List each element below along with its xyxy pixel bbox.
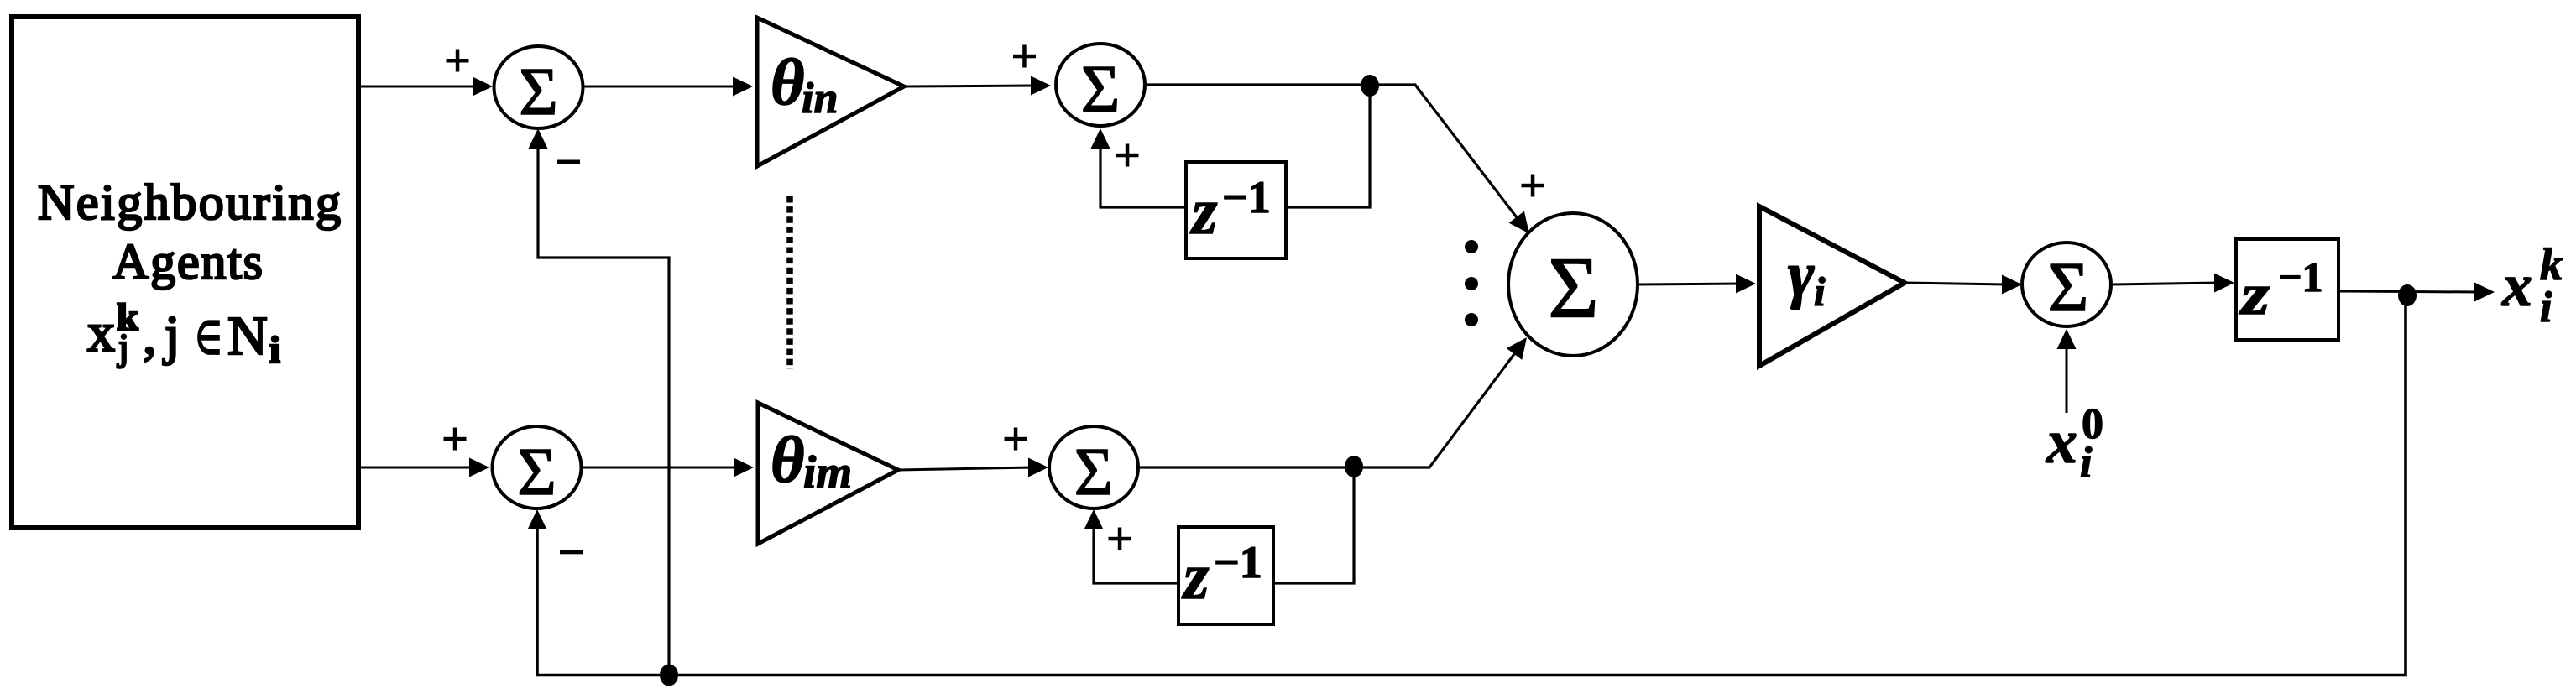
arrowhead into S4 — [1028, 458, 1048, 477]
svg-text:Agents: Agents — [112, 234, 263, 290]
block: Neighbouring Agents source box — [12, 17, 358, 528]
wire: S5 to delay Z3 — [2111, 283, 2218, 284]
arrowhead up into S4 — [1084, 509, 1104, 529]
arrowhead into S2 — [1031, 76, 1051, 96]
label theta_im — [771, 423, 852, 498]
svg-text:i: i — [2080, 439, 2093, 487]
gain block G1 gamma_i (triangle) — [1759, 206, 1905, 366]
label z^-1 of Z3 — [2239, 253, 2323, 327]
svg-text:,: , — [143, 305, 157, 366]
svg-text:in: in — [802, 75, 838, 123]
summer S3 (bottom-left sigma circle) — [493, 426, 582, 509]
svg-text:−1: −1 — [1214, 537, 1262, 587]
arrowhead into G1 — [1736, 274, 1756, 294]
plus sign at S4 input — [1005, 428, 1027, 451]
big summer SB (large sigma ellipse) — [1508, 213, 1638, 356]
svg-text:Σ: Σ — [1081, 53, 1121, 127]
arrowhead up into S2 — [1091, 128, 1110, 149]
svg-text:j: j — [163, 305, 180, 366]
label z^-1 of Z1 — [1189, 172, 1271, 248]
label z^-1 of Z2 — [1181, 537, 1262, 613]
arrowhead into T1 — [733, 77, 753, 97]
gain block T2 theta_im (triangle) — [758, 403, 898, 544]
wire: T1 to summer S2 — [904, 86, 1035, 86]
summer S2 (top accumulator sigma circle) — [1056, 44, 1145, 126]
junction dot on S4 output — [1345, 456, 1363, 477]
delay block Z1 (z^-1 top) — [1186, 162, 1286, 258]
gain block T1 theta_in (triangle) — [757, 18, 904, 166]
label x_i^k — [2501, 239, 2563, 331]
summer S1 (top-left sigma circle) — [494, 46, 583, 128]
wire: T2 to summer S4 — [898, 467, 1032, 470]
wire: G1 to summer S5 — [1905, 283, 2006, 284]
wire: S2 output to corner and diagonal into big summer — [1145, 85, 1522, 224]
ellipsis dots left of big summer — [1465, 240, 1478, 326]
svg-text:Σ: Σ — [519, 55, 558, 129]
label theta_in — [771, 45, 838, 123]
minus sign at S1 feedback input — [557, 160, 580, 164]
svg-text:Σ: Σ — [2048, 248, 2089, 326]
svg-text:k: k — [2540, 239, 2563, 290]
wire: bottom z-loop from junction down into Z2 — [1273, 467, 1354, 583]
wire: Z1 output back into S2 — [1100, 144, 1186, 207]
svg-text:∈: ∈ — [196, 313, 222, 363]
svg-text:i: i — [1814, 269, 1826, 315]
svg-text:Σ: Σ — [1074, 436, 1114, 509]
svg-text:im: im — [803, 446, 852, 498]
arrowhead up into S3 — [528, 509, 547, 529]
svg-text:z: z — [2239, 263, 2270, 327]
svg-text:z: z — [1181, 540, 1210, 613]
svg-text:Σ: Σ — [1548, 240, 1599, 336]
wire: feedback branch up from bottom junction into S1 — [538, 144, 669, 676]
delay block Z3 (z^-1 output) — [2236, 239, 2338, 340]
arrowhead into S1 — [473, 77, 493, 97]
svg-text:z: z — [1189, 175, 1218, 248]
svg-text:x: x — [87, 302, 115, 363]
summer S4 (bottom accumulator sigma circle) — [1049, 426, 1138, 509]
label x_i^0 — [2046, 400, 2103, 487]
arrowhead into S5 — [2002, 275, 2022, 295]
summer S5 (output sigma circle) — [2022, 243, 2111, 326]
label: x_j^k, j in N_i — [87, 295, 280, 371]
svg-text:N: N — [227, 305, 268, 367]
arrowhead up into S1 — [529, 128, 548, 149]
wire: Z2 output back into S4 — [1094, 525, 1178, 583]
wire: box to summer S1 — [361, 86, 477, 88]
plus sign at S3 input — [444, 428, 467, 451]
plus sign at big summer top input — [1522, 175, 1544, 197]
svg-text:−1: −1 — [2278, 253, 2323, 300]
plus sign at S4 feedback input — [1109, 528, 1131, 550]
wire: SB to gain G1 — [1638, 284, 1740, 284]
wire: feedback from output junction down, along bottom, up into S3 — [537, 295, 2406, 676]
wire: S4 output to corner and diagonal into big summer — [1138, 347, 1519, 467]
svg-text:θ: θ — [771, 45, 805, 118]
svg-text:x: x — [2046, 408, 2077, 477]
dotted separator line — [786, 196, 793, 369]
svg-text:Σ: Σ — [517, 436, 556, 509]
wire: S3 to gain T2 — [582, 467, 738, 469]
arrowhead into S3 — [469, 458, 489, 477]
wire: box to summer S3 (bottom row) — [361, 467, 473, 469]
minus sign at S3 feedback input — [560, 550, 583, 555]
wire: Z3 output — [2338, 291, 2479, 292]
junction dot on S2 output — [1361, 75, 1379, 97]
delay block Z2 (z^-1 bottom) — [1178, 527, 1273, 624]
arrowhead to output label — [2474, 283, 2495, 302]
wire: S1 to gain T1 — [583, 86, 737, 88]
arrowhead up into S5 — [2057, 329, 2077, 349]
svg-text:−1: −1 — [1222, 172, 1271, 222]
junction dot on output — [2398, 284, 2417, 306]
label gamma_i — [1788, 239, 1826, 315]
svg-text:i: i — [2540, 284, 2552, 331]
svg-text:γ: γ — [1788, 239, 1815, 310]
plus sign at S2 feedback input — [1116, 144, 1139, 167]
plus sign at S2 input — [1013, 45, 1036, 68]
svg-text:Neighbouring: Neighbouring — [38, 175, 341, 230]
wire: initial condition vertical into S5 — [2066, 345, 2068, 413]
arrowhead diagonal into big summer (top) — [1509, 211, 1537, 240]
arrowhead into Z3 — [2214, 274, 2234, 293]
svg-text:x: x — [2501, 252, 2532, 319]
plus sign at S1 input — [447, 50, 469, 72]
svg-text:i: i — [269, 328, 280, 371]
arrowhead into T2 — [734, 458, 754, 477]
svg-text:j: j — [117, 326, 129, 368]
wire: top z-loop from junction down into Z1 — [1286, 86, 1370, 207]
svg-text:θ: θ — [771, 423, 805, 496]
junction dot on bottom feedback — [660, 665, 678, 686]
arrowhead diagonal into big summer (bottom) — [1507, 331, 1534, 360]
